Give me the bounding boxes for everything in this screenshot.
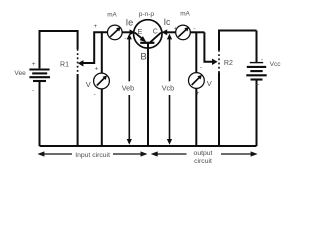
svg-text:Ic: Ic [164,17,171,27]
svg-text:Vee: Vee [14,70,26,77]
svg-text:-: - [200,64,202,71]
svg-text:Ie: Ie [126,17,134,27]
svg-text:mA: mA [180,11,190,18]
svg-text:C: C [153,29,158,36]
svg-text:Vcb: Vcb [162,83,174,92]
svg-text:-: - [124,35,126,42]
svg-text:R1: R1 [60,61,69,68]
svg-text:Input circuit: Input circuit [75,152,110,159]
svg-text:circuit: circuit [194,158,212,165]
svg-text:-: - [32,88,34,95]
svg-text:output: output [194,150,213,157]
svg-text:E: E [138,29,143,36]
svg-text:-: - [193,25,195,32]
svg-text:mA: mA [107,11,117,18]
svg-text:-: - [94,91,96,98]
svg-text:+: + [93,23,97,30]
svg-text:+: + [95,65,99,72]
svg-text:B: B [140,51,146,62]
svg-text:Vcc: Vcc [270,61,282,68]
svg-text:Veb: Veb [122,83,134,92]
svg-text:V: V [86,80,91,89]
svg-text:V: V [207,79,212,88]
svg-text:+: + [174,26,178,33]
svg-text:-: - [261,57,263,64]
svg-text:R2: R2 [224,60,233,67]
svg-text:+: + [256,82,260,89]
svg-text:+: + [32,61,36,68]
svg-text:p-n-p: p-n-p [139,11,155,18]
svg-text:+: + [196,90,200,97]
